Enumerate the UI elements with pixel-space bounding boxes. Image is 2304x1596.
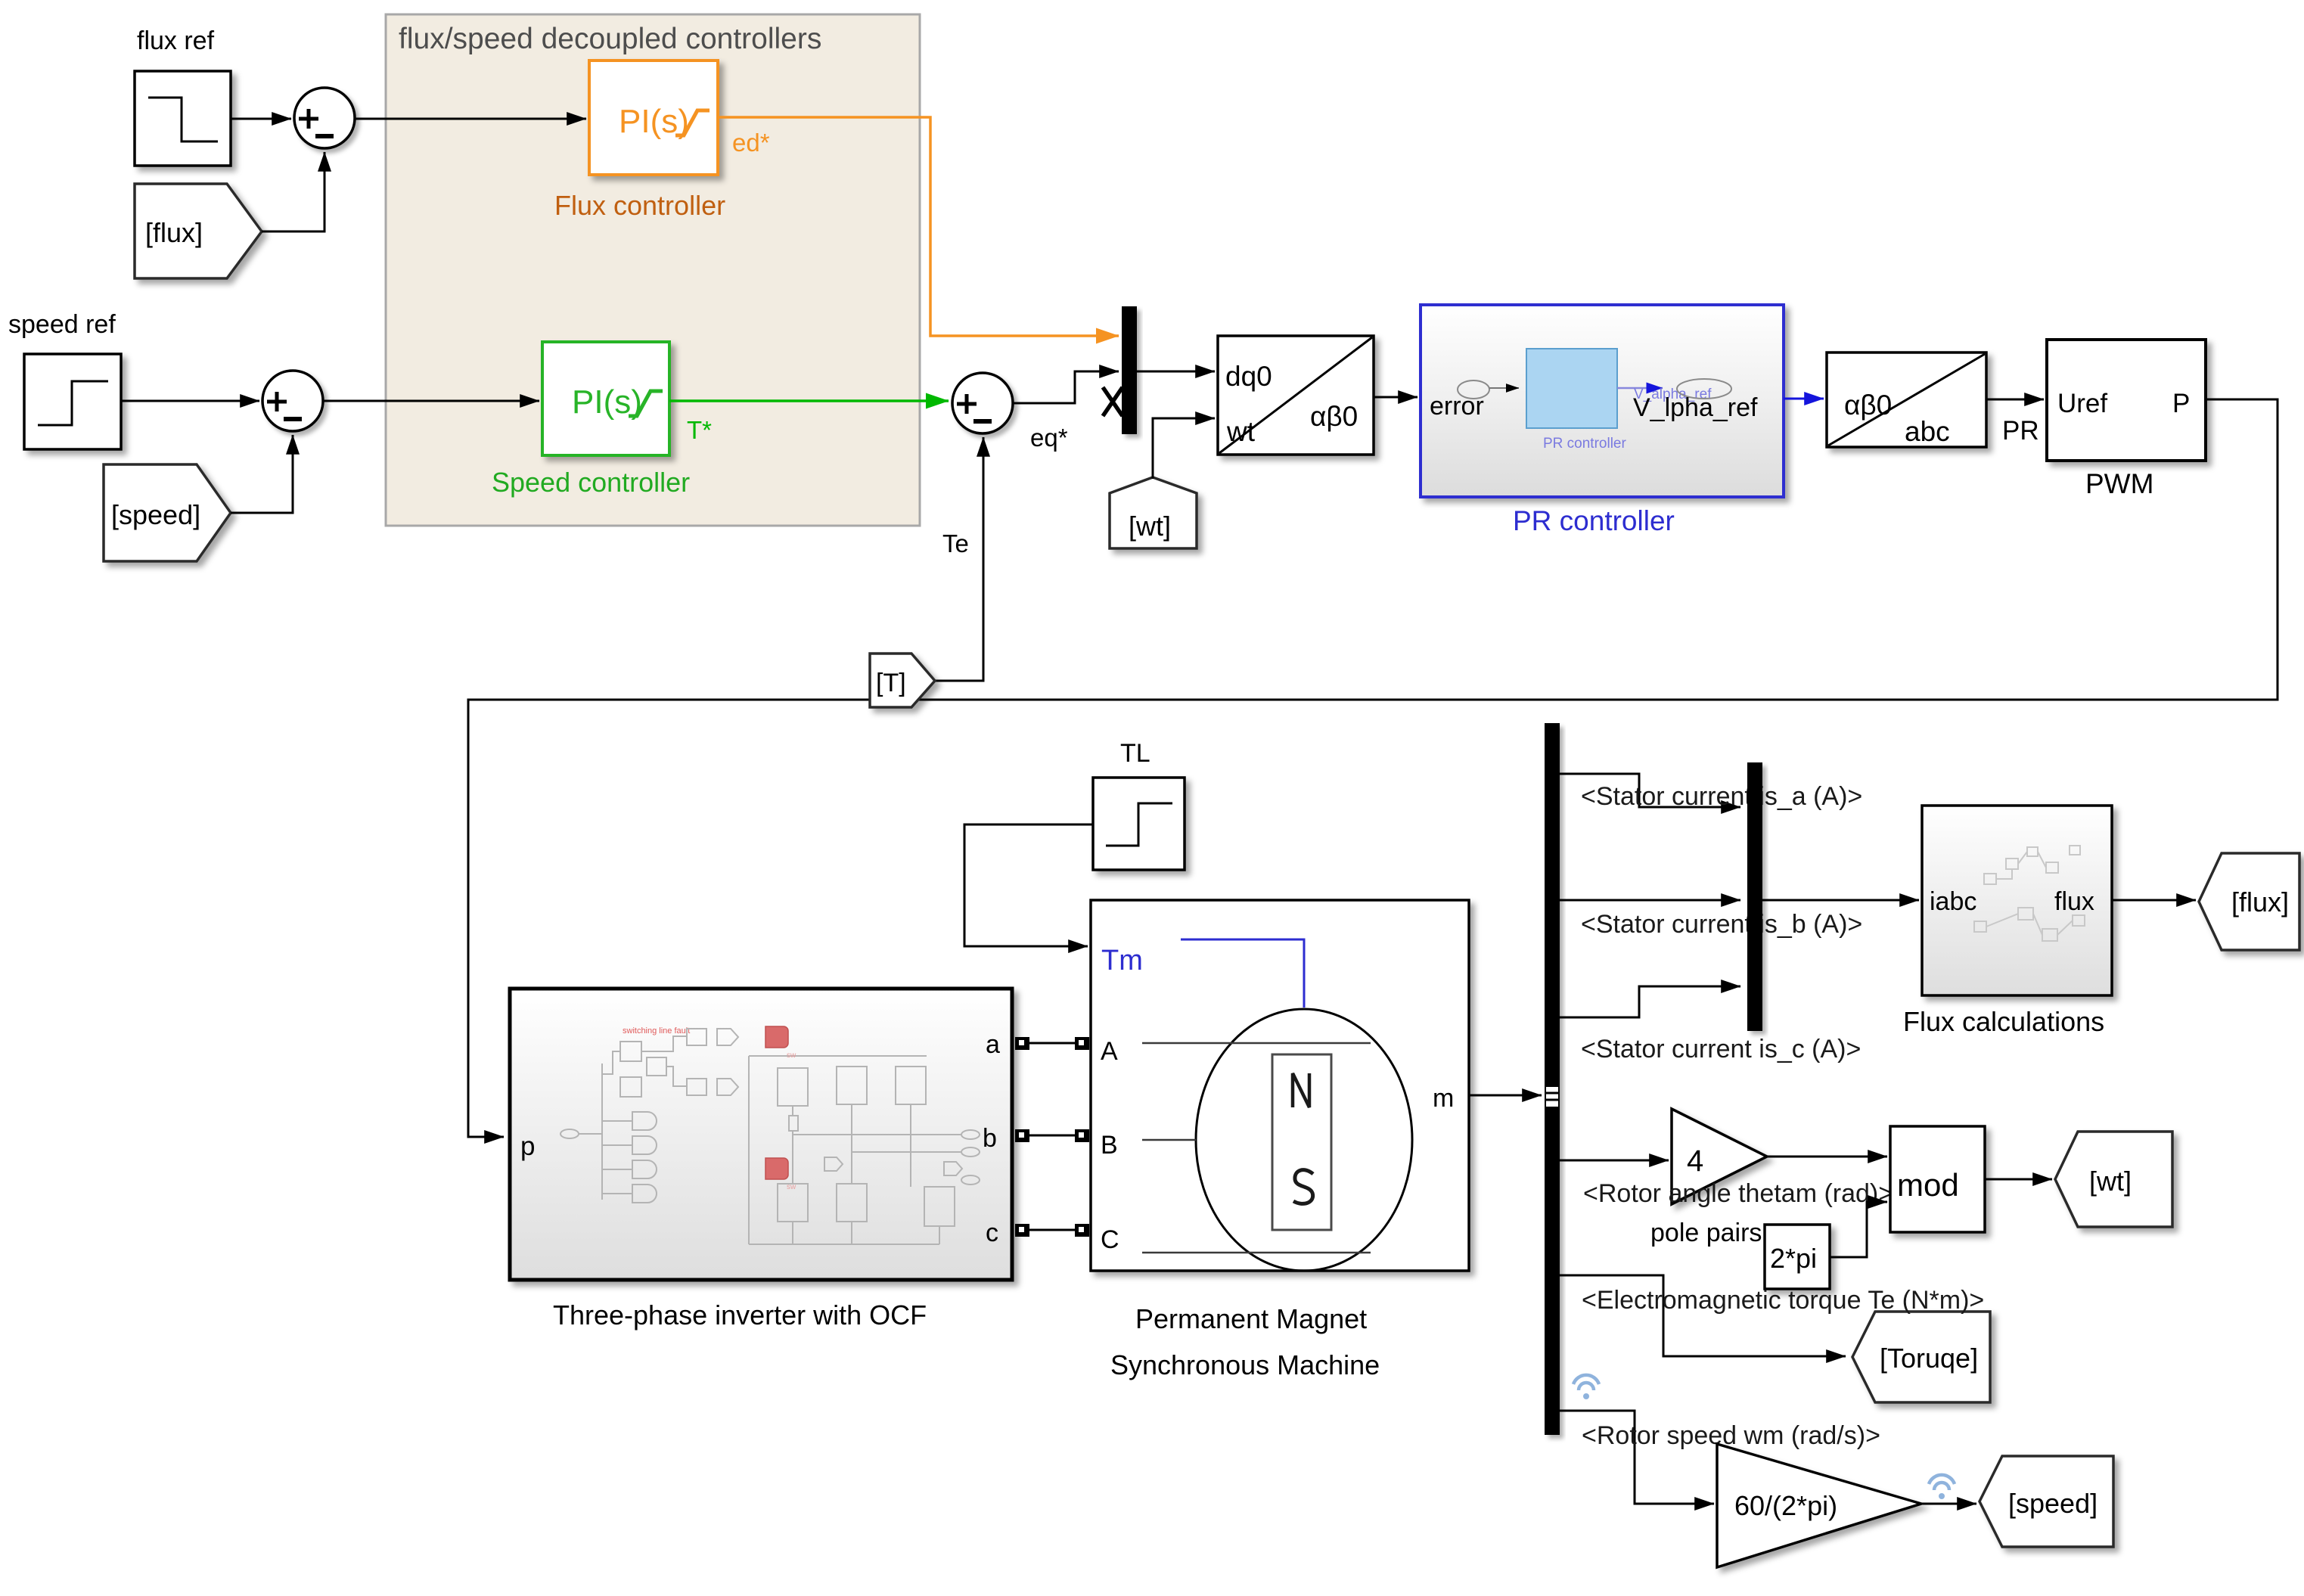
svg-text:V_lpha_ref: V_lpha_ref [1633, 393, 1758, 422]
port: inverter a output [1015, 1037, 1029, 1050]
inverter preview: p oval and bus [560, 1029, 738, 1203]
svg-text:iabc: iabc [1930, 887, 1976, 916]
svg-text:Uref: Uref [2057, 389, 2107, 418]
svg-text:flux: flux [2054, 887, 2094, 916]
wire: [speed] tag to sum S2 [231, 435, 293, 513]
svg-text:[speed]: [speed] [111, 499, 200, 530]
demux D1 (bus selector bar) [1545, 723, 1560, 1435]
subsystem: Three-phase inverter with OCF [510, 989, 1012, 1280]
wire: demux is_c to mux M2 [1560, 986, 1740, 1017]
wire: speed ref step to sum S2 [121, 400, 259, 402]
subsystem: PR controller [1421, 305, 1784, 497]
wire: Flux controller output ed* to mux M1 (orange) [718, 117, 1119, 336]
svg-text:Flux calculations: Flux calculations [1903, 1006, 2104, 1037]
svg-text:Flux controller: Flux controller [554, 190, 725, 221]
wire: sum S3 eq* to mux M1 [1014, 371, 1119, 403]
wire: mux M2 to Flux calculations [1762, 899, 1919, 902]
svg-text:PR: PR [2002, 416, 2039, 446]
svg-text:B: B [1101, 1131, 1118, 1160]
wire: [wt] tag to dq0 transform wt input [1153, 418, 1215, 479]
svg-text:abc: abc [1905, 416, 1950, 447]
svg-text:<Rotor angle thetam (rad)>: <Rotor angle thetam (rad)> [1583, 1179, 1893, 1208]
svg-text:PR controller: PR controller [1513, 505, 1675, 536]
goto tag [speed] [104, 464, 231, 561]
port: PMSM A input [1075, 1037, 1089, 1050]
svg-text:T*: T* [687, 416, 712, 444]
svg-text:dq0: dq0 [1225, 361, 1272, 392]
port: PMSM C input [1075, 1224, 1089, 1237]
svg-text:Synchronous Machine: Synchronous Machine [1110, 1349, 1380, 1380]
from tag [flux] [2199, 853, 2299, 950]
svg-text:[T]: [T] [876, 669, 906, 697]
wire: PR controller to ab0-abc transform (blue) [1784, 398, 1824, 400]
inverter preview: red blocks [765, 1026, 788, 1048]
svg-text:Three-phase inverter with OCF: Three-phase inverter with OCF [553, 1299, 927, 1331]
svg-text:Te: Te [942, 529, 969, 557]
svg-text:TL: TL [1120, 739, 1150, 768]
svg-text:Speed controller: Speed controller [492, 467, 690, 498]
wire: dq0 transform to PR controller [1374, 396, 1417, 399]
area box: flux/speed decoupled controllers [386, 14, 920, 526]
wire: ab0-abc transform to PWM [1986, 399, 2044, 401]
wire: PMSM m output to demux D1 [1469, 1095, 1542, 1097]
sum junction S3 (torque error) [952, 373, 1013, 433]
sum junction S1 (flux) [294, 88, 355, 148]
wire: demux is_a to mux M2 [1560, 774, 1740, 807]
svg-text:a: a [986, 1030, 1000, 1059]
from tag [speed] [1980, 1456, 2113, 1547]
port: inverter c output [1015, 1224, 1029, 1237]
wire: [flux] tag to sum S1 [262, 152, 324, 231]
svg-text:<Stator current is_c (A)>: <Stator current is_c (A)> [1581, 1035, 1861, 1063]
wire: demux is_b to mux M2 [1560, 899, 1740, 902]
from tag [Toruqe] [1852, 1312, 1990, 1402]
svg-text:b: b [983, 1124, 997, 1153]
svg-text:<Rotor speed wm (rad/s)>: <Rotor speed wm (rad/s)> [1582, 1421, 1880, 1450]
source block: flux ref (step down) [135, 71, 231, 166]
block: Speed controller PI(s) U2 [542, 342, 669, 455]
svg-text:<Stator current is_b (A)>: <Stator current is_b (A)> [1581, 910, 1862, 939]
from tag [wt] [2055, 1132, 2172, 1227]
wire: sum S2 to Speed controller [324, 400, 539, 402]
svg-text:αβ0: αβ0 [1310, 401, 1358, 432]
port: PMSM B input [1075, 1129, 1089, 1142]
block: dq0 to alpha-beta-0 transform [1218, 336, 1374, 455]
svg-text:[speed]: [speed] [2008, 1488, 2098, 1519]
streaming badge near demux speed output [1573, 1375, 1599, 1399]
svg-text:switching line fault: switching line fault [623, 1026, 690, 1036]
svg-text:[wt]: [wt] [2089, 1166, 2132, 1197]
svg-text:60/(2*pi): 60/(2*pi) [1734, 1490, 1837, 1521]
inverter preview: bridge [749, 1056, 980, 1244]
svg-text:pole pairs: pole pairs [1650, 1219, 1762, 1247]
wire: mod to [wt] tag [1985, 1178, 2052, 1181]
goto tag [flux] [135, 184, 262, 278]
wire: 2*pi constant to mod [1830, 1202, 1887, 1257]
wire: inverter a to PMSM A [1029, 1042, 1075, 1045]
svg-text:[wt]: [wt] [1129, 511, 1171, 542]
wire: Speed controller output T* to sum S3 (green) [669, 399, 949, 402]
wire: gain G2 to [speed] tag [1921, 1503, 1976, 1505]
svg-text:sw: sw [787, 1183, 796, 1191]
svg-text:flux ref: flux ref [137, 26, 215, 55]
svg-text:4: 4 [1687, 1144, 1703, 1178]
wire: [T] tag to sum S3 [935, 437, 983, 681]
source block: speed ref (step up) [24, 354, 121, 449]
sum junction S2 (speed) [262, 371, 323, 431]
svg-text:αβ0: αβ0 [1844, 390, 1892, 421]
svg-text:eq*: eq* [1030, 424, 1068, 452]
block: Permanent Magnet Synchronous Machine [1091, 900, 1469, 1271]
svg-text:[flux]: [flux] [145, 217, 203, 248]
gain G2: 60/(2*pi) [1717, 1444, 1921, 1567]
svg-text:PR controller: PR controller [1543, 436, 1626, 452]
mux M1 [1122, 306, 1137, 434]
wire: gain G1 to mod [1767, 1156, 1887, 1158]
svg-text:A: A [1101, 1037, 1118, 1066]
svg-text:P: P [2172, 389, 2190, 418]
wire: demux rotor speed to gain G2 [1560, 1411, 1714, 1504]
junction: crossed lines at mux M1 input [1103, 387, 1123, 416]
wire: mux M1 to dq0-ab0 transform [1137, 371, 1215, 373]
svg-text:mod: mod [1897, 1167, 1959, 1203]
svg-text:ed*: ed* [732, 129, 770, 157]
subsystem: Flux calculations [1922, 806, 2112, 995]
wire: Flux calculations to [flux] tag [2112, 899, 2196, 902]
svg-text:[flux]: [flux] [2231, 886, 2289, 918]
wire: flux ref step to sum S1 [231, 118, 291, 120]
mux M2 [1747, 762, 1762, 1031]
svg-text:c: c [986, 1219, 998, 1247]
svg-text:sw: sw [787, 1051, 796, 1060]
svg-text:error: error [1430, 392, 1484, 421]
svg-text:<Electromagnetic torque Te (N*: <Electromagnetic torque Te (N*m)> [1582, 1286, 1984, 1315]
svg-text:C: C [1101, 1225, 1119, 1254]
gain G1: pole pairs (4) [1672, 1109, 1767, 1204]
wire: demux rotor angle to gain G1 [1560, 1160, 1669, 1162]
svg-text:p: p [520, 1132, 535, 1161]
svg-text:[Toruqe]: [Toruqe] [1880, 1343, 1978, 1374]
streaming badge near [speed] tag [1929, 1475, 1955, 1499]
from tag [wt] (pointing up) [1110, 477, 1197, 548]
svg-text:flux/speed decoupled controlle: flux/speed decoupled controllers [399, 23, 821, 55]
wire: PWM P output feedback to inverter p input [468, 399, 2278, 1137]
svg-text:2*pi: 2*pi [1770, 1243, 1817, 1274]
block: mod (math function) [1890, 1126, 1985, 1232]
svg-text:PWM: PWM [2085, 468, 2153, 499]
block: alpha-beta-0 to abc transform [1827, 352, 1986, 447]
wire: sum S1 to Flux controller [356, 118, 586, 120]
port: inverter b output [1015, 1129, 1029, 1142]
svg-text:wt: wt [1226, 416, 1256, 447]
source block: TL (step) [1093, 778, 1185, 870]
goto tag [T] [870, 654, 935, 707]
svg-text:speed ref: speed ref [8, 310, 116, 339]
wire: inverter c to PMSM C [1029, 1229, 1075, 1231]
svg-text:<Stator current is_a (A)>: <Stator current is_a (A)> [1581, 782, 1862, 811]
block: PWM [2047, 340, 2206, 461]
svg-text:Tm: Tm [1101, 945, 1143, 977]
svg-text:m: m [1433, 1084, 1454, 1113]
block: Flux controller PI(s) U1 [589, 61, 718, 175]
wire: demux torque to [Toruqe] tag [1560, 1275, 1846, 1356]
constant block: 2*pi [1765, 1225, 1830, 1289]
svg-text:Permanent Magnet: Permanent Magnet [1135, 1303, 1367, 1334]
wire: inverter b to PMSM B [1029, 1135, 1075, 1137]
wire: TL to PMSM Tm input [964, 824, 1093, 946]
